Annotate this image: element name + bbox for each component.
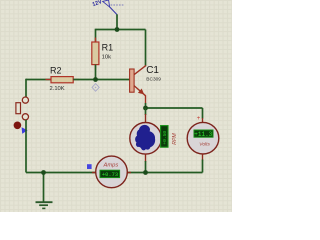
svg-text:BC309: BC309 <box>146 76 161 82</box>
voltmeter <box>187 122 219 154</box>
wire base rail <box>96 79 130 81</box>
wire left drop to switch <box>25 79 27 97</box>
pin motor bottom <box>145 154 147 162</box>
pin motor top <box>145 114 147 123</box>
pin R1 top <box>95 38 97 44</box>
display RPM panel <box>161 126 169 148</box>
pin ammeter right <box>127 172 132 174</box>
pin R2 right <box>73 79 80 81</box>
svg-text:R1: R1 <box>102 43 114 53</box>
ground <box>36 173 53 209</box>
wire motor top <box>145 108 147 115</box>
node base junction <box>93 77 98 82</box>
svg-text:Amps: Amps <box>102 163 118 169</box>
pin voltmeter bottom <box>202 154 204 161</box>
svg-text:+0.50: +0.50 <box>162 131 168 145</box>
wire bottom rail <box>26 172 203 174</box>
wire motor bottom <box>145 161 147 173</box>
probe blue square <box>87 164 92 169</box>
power terminal 12V <box>92 0 124 15</box>
wire R2 right to base junction <box>73 79 95 81</box>
pin voltmeter top <box>202 118 204 124</box>
resistor R1 <box>92 42 113 65</box>
node emitter junction <box>143 106 148 111</box>
pin ammeter left <box>92 172 97 174</box>
transistor C1 (BC309) <box>130 65 162 104</box>
svg-text:R2: R2 <box>50 65 62 75</box>
pin R2 left <box>46 79 53 81</box>
wire top rail <box>96 29 146 31</box>
node motor bottom junction <box>143 170 148 175</box>
resistor R2 <box>50 65 74 92</box>
wire R1 bottom <box>95 65 97 80</box>
svg-text:2.10K: 2.10K <box>50 86 65 92</box>
wire R1 top <box>95 29 97 43</box>
svg-text:RPM: RPM <box>172 133 178 145</box>
svg-text:Volts: Volts <box>199 141 210 147</box>
wire emitter to junction <box>145 103 147 108</box>
node top junction <box>115 27 120 32</box>
svg-text:C1: C1 <box>146 65 159 76</box>
wire voltmeter top drop <box>202 108 204 119</box>
origin marker diamond <box>92 84 99 92</box>
node ground junction <box>41 170 46 175</box>
wire switch bottom drop <box>25 120 27 173</box>
svg-text:+0.73: +0.73 <box>102 172 118 178</box>
svg-text:10k: 10k <box>102 54 112 60</box>
wire voltmeter bottom <box>202 160 204 173</box>
wire R2 left <box>26 79 52 81</box>
svg-text:+: + <box>197 116 201 122</box>
wire collector vertical <box>145 30 147 66</box>
wire 12V drop to rail <box>116 14 118 29</box>
switch (SPST) <box>14 97 29 134</box>
svg-text:+11.3: +11.3 <box>194 131 212 138</box>
pin R1 bottom <box>95 64 97 70</box>
ammeter <box>96 156 128 188</box>
dc motor <box>130 123 162 155</box>
wire right rail <box>146 107 203 109</box>
